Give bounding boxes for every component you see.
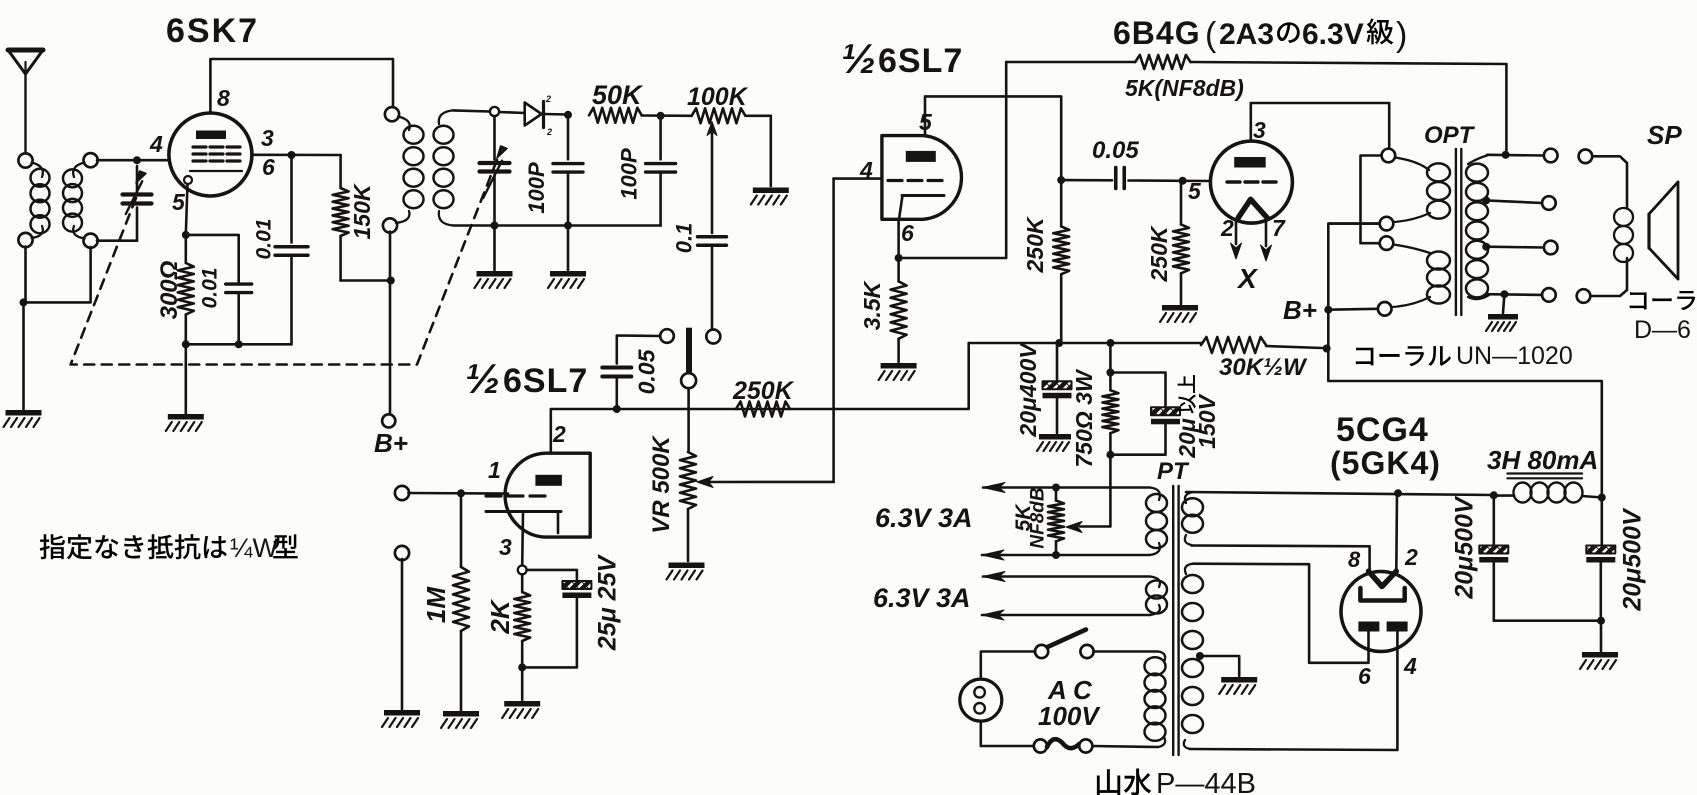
node choke in [1490,491,1498,499]
potentiometer 5K NF8dB [1048,501,1064,542]
svg-text:6SL7: 6SL7 [878,42,963,80]
svg-text:3: 3 [1253,117,1266,143]
ground 1M [441,711,479,728]
wire T2 bottom bus [453,224,661,227]
capacitor 0.01 cathode [226,284,252,344]
node pot top [1052,484,1060,492]
capacitor 0.1 [698,237,727,330]
wire B+ feed leg [389,232,392,415]
transformer T2 secondary [434,110,454,225]
svg-text:3H 80mA: 3H 80mA [1487,445,1598,475]
choke 3H 80mA [1497,474,1602,503]
wire VR wiper from grid2 [697,179,834,488]
label Sansui P-44B [1097,768,1256,795]
potentiometer 100K [692,108,771,233]
capacitor 100P second [646,116,676,226]
wire secondary top tap [1487,154,1544,157]
ground 2K [502,701,540,718]
wire first-stage plate bus [551,343,969,453]
svg-text:(: ( [1205,16,1217,54]
svg-text:0.1: 0.1 [671,223,696,254]
wire HV bottom to pin4 [1190,632,1397,750]
svg-text:3: 3 [499,534,512,560]
wire 5V winding bottom pin8 [1192,546,1370,572]
resistor 250K grid leak [1173,181,1189,304]
switch [981,630,1158,680]
wire NF to OPT secondary [1505,64,1508,155]
wire grid pin4 [834,177,882,180]
node pin2 junction [1394,489,1402,497]
wire 6.3V line 4 [982,610,1150,620]
svg-text:UN—1020: UN—1020 [1456,342,1573,370]
wire antenna ground leg [24,246,27,302]
ground cathode [166,414,204,431]
wire filter to ground [1600,621,1603,651]
PT winding primary [1145,652,1166,748]
label 20u ijo [1174,375,1220,459]
node var-cap2 bottom [491,222,499,230]
svg-text:0.01: 0.01 [199,268,222,309]
node 2K bottom [518,663,526,671]
svg-text:100P: 100P [524,162,549,214]
label AC 100V [1038,675,1101,731]
svg-text:OPT: OPT [1424,122,1476,149]
svg-text:100K: 100K [687,83,749,111]
svg-text:PT: PT [1157,458,1190,485]
terminal input gnd [395,546,409,560]
wire HV top to pin6 [1193,564,1369,663]
svg-text:½: ½ [465,355,500,402]
ground 100K [751,188,789,205]
wire input gnd leg [401,559,404,709]
resistor 30K half W [1201,337,1322,353]
node NF tap [1502,151,1510,159]
terminal sec 3 [1544,241,1558,255]
svg-text:B+: B+ [374,428,408,458]
svg-text:½: ½ [841,35,876,82]
fuse [981,721,1158,753]
ground 3.5K [879,363,917,380]
wire input to grid [408,492,508,495]
label half-6SL7 first [465,355,588,402]
terminal sec 1 [1544,149,1558,163]
terminal B+ left [382,414,395,427]
tube V4 5CG4 [1341,571,1421,651]
svg-text:25μ 25V: 25μ 25V [594,554,622,652]
antenna [8,50,43,155]
svg-text:2: 2 [552,421,566,447]
wire B+ to OPT T4 [1328,307,1378,311]
jack PU input [660,328,720,452]
resistor 250K plate load h [736,402,790,417]
diode detector [499,102,568,128]
wire B+ return loop [1328,224,1602,498]
wire NF return to cathode [899,62,1007,258]
resistor 1M [453,493,469,710]
speaker terminals [1577,150,1593,303]
resistor 300ohm [178,235,194,344]
node grid junction [133,156,141,164]
node 750ohm rail junction [1107,339,1115,347]
wire cathode bus [186,343,292,346]
capacitor 20u500V input [1479,495,1601,620]
node 30K right junction [1323,345,1331,353]
svg-text:30K½W: 30K½W [1219,354,1308,381]
PT winding HV [1182,564,1203,749]
capacitor 0.05 coupling [602,336,660,410]
note unspecified resistors quarter W [40,533,298,563]
capacitor 0.01 screen bypass [275,155,308,344]
node screen junction [288,151,296,159]
variable capacitor tuning gang A [97,166,152,241]
svg-text:20μ500V: 20μ500V [1451,495,1479,600]
svg-text:2: 2 [546,127,552,137]
filament pin 2 arrow [1231,220,1242,260]
wire sec bottom to ground [1503,294,1504,313]
node 100P bottom [564,222,572,230]
ground var-cap2 [475,271,513,288]
node grid-1M junction [457,489,465,497]
wire secondary tap2 [1486,200,1542,203]
OPT secondary [1466,156,1489,300]
svg-text:6.3V: 6.3V [1302,18,1364,51]
node antenna-gnd junction [20,298,28,306]
wire 2K to ground [521,667,524,700]
svg-text:0.05: 0.05 [1092,137,1139,164]
speaker cone [1649,182,1678,279]
svg-text:NF8dB: NF8dB [1027,487,1048,549]
svg-text:6.3V 3A: 6.3V 3A [873,583,971,613]
node 150K junction [387,277,395,285]
tube V3 6B4G [1210,141,1292,223]
terminal input hot [395,486,409,500]
wire 6.3V line 3 [983,572,1150,582]
wire cathode pin5 [186,184,188,235]
svg-text:0.01: 0.01 [253,219,276,260]
svg-text:100P: 100P [616,148,641,200]
capacitor 100P first [553,115,583,226]
ground 250K grid leak [1160,305,1198,322]
ground 20u400V [1037,434,1071,451]
svg-text:VR 500K: VR 500K [648,435,675,534]
resistor 50K [589,108,642,123]
node cathode2 junction [895,254,903,262]
ground filter [1580,652,1618,669]
ground 100P [548,271,586,288]
svg-text:2: 2 [1220,215,1234,241]
svg-text:5CG4: 5CG4 [1336,411,1429,449]
svg-text:7: 7 [1272,215,1286,241]
svg-text:1M: 1M [421,586,451,623]
wire plate pin5 to coupling [925,96,1061,180]
svg-text:2: 2 [545,94,551,104]
svg-text:4: 4 [149,131,163,157]
terminal sec 2 [1542,196,1556,210]
label 5CG4 title [1330,411,1441,481]
label 6B4G title [1113,15,1407,54]
svg-text:250K: 250K [1022,216,1048,273]
svg-text:6: 6 [901,220,914,246]
transformer PT core [1173,486,1178,755]
svg-text:5K(NF8dB): 5K(NF8dB) [1125,75,1244,101]
svg-text:4: 4 [1403,653,1417,679]
node 300ohm bottom [182,340,190,348]
node 0.01 bottom [235,340,243,348]
transformer T2 primary [383,107,424,232]
resistor 150K [333,155,349,281]
node tap2 [1482,196,1490,204]
speaker voice coil [1590,156,1633,296]
wire 6.3V line 1 [983,483,1150,493]
svg-text:D—6: D—6 [1634,316,1691,344]
node cathode small circle [518,566,527,575]
wire secondary top to detector [453,110,490,111]
wire 6B4G plate to OPT [1251,103,1389,149]
label half-6SL7 second [841,35,963,82]
tube V2 half 6SL7 first stage [486,453,590,565]
resistor 5K NF feedback [1006,55,1506,69]
wire grid lead pin4 [97,159,169,162]
svg-text:(5GK4): (5GK4) [1330,445,1441,481]
terminal sec 4 [1542,288,1556,302]
ground antenna [4,410,42,427]
wire 750 to hum pot wiper [1066,455,1110,533]
wire rectifier output line [1186,492,1494,495]
node tap3 [1482,243,1490,251]
label Coral UN-1020 [1356,342,1573,370]
svg-text:P—44B: P—44B [1156,768,1256,795]
svg-text:150V: 150V [1194,393,1220,448]
svg-text:3.5K: 3.5K [859,280,885,330]
node 750 bottom junction [1106,451,1114,459]
svg-text:1: 1 [488,457,501,483]
wire 150K to B+ leg [341,279,391,282]
wire secondary bottom tap [1487,293,1542,296]
wire OPT T2 to B+ [1329,222,1379,225]
svg-text:20μ400V: 20μ400V [1015,342,1041,438]
node choke out [1598,494,1606,502]
svg-text:X: X [1236,263,1259,294]
wire OPT T1-T3 strap [1361,156,1382,244]
wire HV CT to ground [1202,656,1239,676]
node plate2 junction [1057,176,1065,184]
svg-text:¼W: ¼W [230,533,279,563]
node B+ junction [1324,306,1332,314]
capacitor 20u150V [1110,373,1180,455]
svg-text:8: 8 [1348,547,1361,572]
variable capacitor tuning gang B [480,116,510,270]
svg-text:150K: 150K [349,183,375,239]
svg-text:5: 5 [172,189,186,215]
svg-text:20μ500V: 20μ500V [1619,507,1647,612]
svg-text:3: 3 [261,125,274,151]
antenna coil T1 secondary [63,153,98,248]
ground VR [667,563,705,580]
svg-text:2K: 2K [485,598,515,634]
svg-text:): ) [1396,16,1407,54]
potentiometer VR 500K [680,452,696,561]
svg-text:750Ω 3W: 750Ω 3W [1071,368,1097,468]
svg-text:300Ω: 300Ω [156,260,183,319]
svg-text:6SK7: 6SK7 [166,12,259,50]
svg-text:2A3: 2A3 [1219,18,1274,51]
tube V1 6SK7 [169,113,252,196]
node 250K rail junction [1055,339,1063,347]
svg-text:B+: B+ [1283,295,1317,325]
svg-text:SP: SP [1647,120,1682,150]
capacitor 20u400V [1043,343,1072,433]
node 0.05 junction [613,405,621,413]
node HV center tap [1196,652,1204,660]
svg-text:50K: 50K [592,80,644,110]
svg-text:6B4G: 6B4G [1113,15,1201,51]
wire pin2 drop [1395,493,1398,571]
node 6B4G grid junction [1179,177,1187,185]
capacitor 25u25V [522,570,591,668]
PT winding 5V rect [1182,492,1203,545]
wire secondary bottom to gnd leg [24,247,91,302]
node 50K-100K junction [657,112,665,120]
svg-text:100V: 100V [1038,701,1101,731]
wire 50K junction [642,114,692,117]
resistor 2K [514,574,530,667]
wire cathode to 0.01 [186,235,239,283]
wire 100P bus to ground [567,226,570,271]
AC plug [960,679,1002,721]
resistor 250K plate load 2 [1053,180,1069,343]
wire dashed tuning-gang link [71,147,502,365]
svg-text:2: 2 [1404,544,1418,570]
svg-text:5: 5 [1188,178,1202,204]
svg-text:6.3V 3A: 6.3V 3A [875,503,973,533]
filament pin 7 arrow [1261,220,1272,262]
ground OPT secondary [1486,314,1518,331]
node diode input [490,107,499,116]
svg-text:250K: 250K [732,377,795,405]
PT winding 6.3V no1 [1146,488,1167,556]
resistor 3.5K [891,258,907,362]
PT winding 6.3V no2 [1146,577,1167,616]
ground HV CT [1219,677,1257,694]
capacitor 0.05 to 6B4G [1061,168,1210,189]
svg-text:6: 6 [1358,663,1371,689]
wire plate pin8 to IFT primary [210,59,393,113]
capacitor 20u500V output [1586,498,1615,621]
OPT primary upper [1380,149,1450,231]
tube V2 half 6SL7 second stage [882,136,962,220]
node cathode junction [182,231,190,239]
antenna coil T1 primary [18,153,49,247]
node sec bottom [1500,290,1508,298]
node 750 top junction [1106,369,1114,377]
label Coral D-6 [1630,291,1696,344]
svg-text:250K: 250K [1146,225,1172,282]
wire 6.3V line 2 [982,550,1150,560]
resistor 750ohm 3W [1102,343,1118,455]
svg-text:8: 8 [217,85,230,111]
svg-text:6SL7: 6SL7 [503,362,588,400]
node pot bottom [1052,551,1060,559]
svg-text:0.05: 0.05 [633,348,659,394]
node filter ground junction [1597,617,1605,625]
transformer OPT core [1456,149,1461,315]
svg-text:6: 6 [262,154,275,180]
wire B rail [969,342,1201,345]
wire 300ohm to ground [185,344,188,414]
wire secondary tap3 [1486,245,1544,248]
ground input [382,710,420,727]
node detector output [564,111,572,119]
OPT primary lower [1378,236,1450,315]
wire pin3/6 screen lead [252,154,341,157]
wire cathode pin6 [897,219,900,258]
